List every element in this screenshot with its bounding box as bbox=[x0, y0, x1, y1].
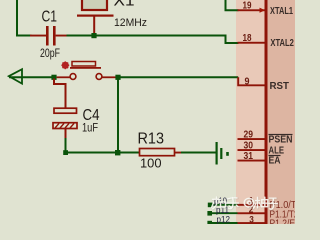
microcontroller U1 body (pin margin band) bbox=[236, 0, 295, 224]
svg-text:X1: X1 bbox=[114, 0, 135, 10]
pin 30 stub bbox=[238, 149, 265, 151]
wire RST branch vertical bbox=[117, 78, 119, 153]
push button left contact bbox=[70, 74, 76, 80]
junction button-left bbox=[51, 75, 56, 80]
wire R13 to ground bbox=[181, 152, 216, 154]
pin 19 marker arrow bbox=[260, 8, 266, 13]
svg-text:PSEN: PSEN bbox=[269, 135, 293, 146]
crystal X1 stem bbox=[93, 17, 95, 36]
pin 29 stub bbox=[238, 138, 265, 140]
net p11 anchor square bbox=[207, 211, 212, 216]
pin 18 XTAL2 stub bbox=[238, 42, 265, 44]
push button star marker bbox=[61, 61, 69, 69]
wire button bypass to C4 bbox=[54, 79, 66, 109]
net p10 anchor square bbox=[208, 203, 213, 208]
capacitor C4 bottom stub bbox=[65, 129, 67, 139]
wire junction to R13 bbox=[120, 152, 140, 154]
push button left stub bbox=[57, 76, 71, 78]
wire RST step down to pin 9 bbox=[238, 77, 264, 85]
junction crystal/wire bbox=[91, 33, 96, 38]
capacitor C1 left stub bbox=[30, 35, 47, 37]
svg-text:RST: RST bbox=[270, 81, 290, 92]
capacitor C1 right stub bbox=[56, 35, 68, 37]
svg-text:9: 9 bbox=[245, 76, 250, 87]
junction C4 corner bbox=[63, 150, 68, 155]
crystal X1 bottom plate bbox=[77, 15, 114, 17]
net p12 anchor square bbox=[207, 221, 212, 226]
wire C4 bottom to R13 row bbox=[66, 138, 118, 153]
junction R13 node bbox=[115, 150, 120, 155]
capacitor C4 top plate bbox=[54, 108, 77, 113]
wire C1 to XTAL2 with step bbox=[67, 36, 239, 44]
svg-text:19: 19 bbox=[243, 0, 252, 11]
pin 3 stub bbox=[238, 222, 265, 224]
svg-text:30: 30 bbox=[244, 141, 254, 152]
pin 31 stub bbox=[238, 160, 265, 162]
ground symbol (rotated right) bbox=[216, 142, 229, 165]
push button right contact bbox=[96, 74, 102, 80]
push button bridge bar bbox=[70, 67, 101, 69]
svg-text:29: 29 bbox=[244, 130, 254, 141]
wire p10 bbox=[212, 204, 238, 206]
microcontroller U1 body fill bbox=[268, 0, 296, 224]
microcontroller U1 left border bbox=[265, 0, 268, 224]
resistor R13 body bbox=[140, 149, 175, 156]
svg-text:18: 18 bbox=[243, 33, 252, 44]
wire top-left vertical to C1 bbox=[17, 0, 32, 36]
svg-text:XTAL1: XTAL1 bbox=[270, 6, 293, 17]
wire XTAL1 vertical from top bbox=[226, 0, 239, 10]
resistor R13 right stub bbox=[175, 152, 182, 154]
watermark 知乎 @柚子 bbox=[212, 197, 278, 210]
pin 1 stub bbox=[238, 204, 265, 206]
pin 2 stub bbox=[238, 212, 265, 214]
pin name PSEN with overline bbox=[269, 134, 293, 135]
svg-text:XTAL2: XTAL2 bbox=[270, 38, 294, 49]
pin name EA with overline bbox=[269, 155, 281, 156]
svg-text:p12: p12 bbox=[217, 214, 231, 224]
crystal X1 body bbox=[82, 0, 107, 10]
svg-text:R13: R13 bbox=[138, 131, 165, 148]
svg-text:20pF: 20pF bbox=[40, 46, 60, 60]
svg-text:EA: EA bbox=[269, 155, 281, 166]
svg-text:1uF: 1uF bbox=[82, 121, 98, 135]
svg-text:100: 100 bbox=[140, 155, 162, 170]
wire right contact to RST pin bbox=[116, 76, 238, 78]
wire p12 bbox=[212, 222, 238, 224]
svg-text:P1.2/ECI: P1.2/ECI bbox=[270, 219, 296, 224]
wire p11 bbox=[212, 212, 238, 214]
svg-text:12MHz: 12MHz bbox=[114, 17, 147, 29]
push button right stub bbox=[102, 76, 116, 78]
terminal arrow (RST net, left) bbox=[9, 76, 54, 78]
capacitor C1 plates bbox=[46, 26, 49, 46]
push button cap bbox=[72, 62, 96, 67]
capacitor C4 bottom plate (hatched) bbox=[53, 123, 77, 129]
junction RST/R13 branch bbox=[115, 75, 120, 80]
svg-text:C1: C1 bbox=[42, 9, 58, 26]
svg-text:31: 31 bbox=[244, 151, 254, 162]
pin 19 XTAL1 stub bbox=[238, 9, 265, 11]
svg-text:3: 3 bbox=[249, 215, 254, 224]
